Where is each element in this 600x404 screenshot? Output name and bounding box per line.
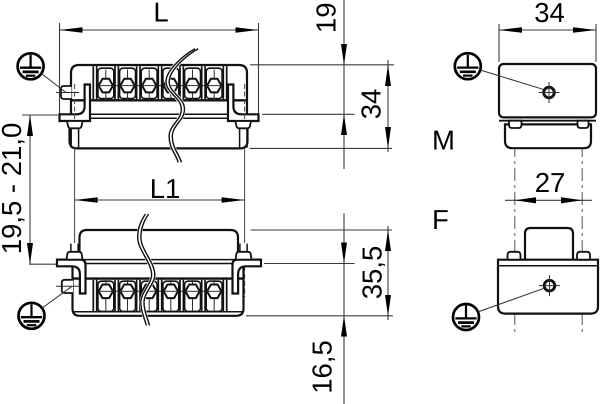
dimension L1 arrow right [222, 197, 245, 203]
M view centerline left [514, 72, 516, 333]
svg-text:19: 19 [310, 3, 341, 34]
male terminal cell 6 [206, 68, 222, 100]
female terminal divider 4 [158, 280, 161, 312]
female ground leader [42, 286, 72, 308]
female terminal row centerline [96, 290, 224, 292]
dimension 34 right line [499, 29, 596, 31]
male terminal cell 3 [141, 68, 157, 100]
female terminal divider 2 [115, 280, 118, 312]
svg-text:M: M [432, 125, 455, 156]
dimension 19,5-21,0 arrow up [27, 115, 33, 136]
female terminal divider 3 [137, 280, 140, 312]
dimension L1 arrow left [75, 197, 98, 203]
F view foot right [577, 252, 590, 260]
chain arrow up at female bottom [341, 316, 347, 337]
male terminal divider 1 [93, 66, 96, 99]
female flange line [57, 259, 261, 261]
M view ledge [499, 120, 596, 122]
dimension 27 line [505, 199, 592, 201]
female terminal divider 1 [93, 280, 96, 312]
M ground symbol [455, 53, 481, 79]
dimension 35,5 line [387, 226, 389, 320]
dimension 34 line [387, 60, 389, 152]
svg-text:F: F [432, 204, 449, 235]
M view foot right [578, 121, 589, 128]
extension line female body bottom [246, 315, 393, 317]
female terminal cell 6 [206, 280, 222, 311]
dimension 34 right extension left [498, 24, 500, 62]
dimension L line [60, 29, 259, 31]
male terminal divider 3 [137, 66, 140, 99]
female terminal cell 4 [163, 280, 179, 311]
male terminal cell 2 [120, 68, 136, 100]
dimension L arrow left [60, 27, 83, 33]
extension line male flange [262, 113, 355, 115]
male PE bump centerline [56, 92, 79, 94]
female mounting bracket left [57, 260, 86, 294]
F view center screw [539, 275, 560, 296]
svg-text:35,5: 35,5 [357, 246, 388, 300]
male terminal cell 4 [163, 68, 179, 100]
female PE bump centerline [56, 285, 79, 287]
dimension L1 line [75, 199, 245, 201]
svg-text:L: L [153, 0, 168, 28]
svg-text:34: 34 [356, 89, 387, 120]
dimension 34 right extension right [595, 24, 597, 62]
male terminal row centerline [96, 85, 224, 87]
female PE contact bump [62, 280, 73, 293]
dimension 35,5 arrow up [385, 230, 391, 251]
male bracket screw left [67, 121, 83, 148]
female terminal cell 3 [141, 280, 157, 311]
male terminal divider 6 [202, 66, 205, 99]
dimension L extension line left [59, 23, 61, 114]
extension line female flange right [264, 263, 355, 265]
svg-text:19,5 - 21,0: 19,5 - 21,0 [0, 123, 27, 254]
dimension 34 arrow down [385, 127, 391, 148]
M view centerline right [581, 72, 583, 333]
female terminal row bottom line [73, 311, 243, 313]
dimension 19 arrow down [341, 44, 347, 65]
female terminal divider 6 [202, 280, 205, 312]
female ground symbol [19, 303, 45, 329]
male terminal row bottom line [71, 99, 247, 101]
male skirt top line [70, 117, 248, 119]
M view center screw [539, 82, 560, 103]
male terminal divider 7 [223, 66, 226, 99]
female terminal divider 7 [223, 280, 226, 312]
svg-text:27: 27 [535, 167, 566, 198]
female terminal divider 5 [180, 280, 183, 312]
extension line female flange left [29, 263, 59, 265]
male ground leader [41, 74, 66, 93]
extension line male top [250, 64, 394, 66]
dimension 19,5-21,0 arrow down [27, 243, 33, 264]
dimension 19 arrow up [341, 114, 347, 135]
F view foot left [508, 252, 521, 260]
female terminal cell 2 [120, 280, 136, 311]
dimension L1 extension line left [74, 84, 76, 297]
female terminal row top line [73, 277, 244, 279]
female insert hood [80, 230, 239, 264]
male PE contact bump [61, 86, 72, 99]
female terminal cell 1 [98, 280, 114, 311]
dimension 27 arrow right [561, 197, 582, 203]
female bracket screw left [67, 244, 83, 260]
male terminal divider 2 [115, 66, 118, 99]
svg-text:L1: L1 [150, 173, 181, 204]
female mounting bracket right [233, 260, 262, 294]
extension line female hood top [251, 229, 393, 231]
dimension 35,5 arrow down [385, 295, 391, 316]
F ground leader [478, 288, 544, 312]
female break line [138, 214, 155, 326]
dimension L arrow right [236, 27, 259, 33]
female insert body [73, 264, 244, 316]
dimension L1 extension line right [244, 84, 246, 297]
M view foot left [509, 121, 522, 128]
dimension 27 arrow left [515, 197, 536, 203]
dimension 19 line [343, 0, 345, 169]
male insert body [71, 65, 247, 114]
dimension L extension line right [258, 23, 260, 114]
svg-text:34: 34 [534, 0, 565, 28]
extension line flange left [22, 114, 58, 116]
dimension 34 arrow up [385, 65, 391, 86]
male insert skirt [70, 118, 248, 148]
F view ledge line [498, 265, 598, 267]
male terminal cell 5 [185, 68, 201, 100]
female bracket screw right [236, 244, 252, 260]
extension line male bottom [250, 147, 393, 149]
male flange line [60, 113, 259, 115]
dimension 34 right arrow left [499, 27, 522, 33]
male mounting bracket right [228, 85, 259, 122]
dimension chain line lower [343, 213, 345, 404]
male ground symbol [18, 53, 44, 79]
male bracket screw right [235, 121, 251, 148]
dimension 19,5-21,0 line [29, 115, 31, 264]
M view skirt [505, 124, 591, 148]
chain arrow down at female flange [341, 243, 347, 264]
male terminal divider 5 [180, 66, 183, 99]
F ground symbol [453, 304, 479, 330]
svg-text:16,5: 16,5 [307, 340, 338, 394]
M view body [499, 64, 596, 117]
M ground leader [480, 70, 543, 89]
F view body [498, 260, 598, 314]
male terminal divider 4 [158, 66, 161, 99]
male terminal cell 1 [98, 68, 114, 100]
F view nose [525, 228, 573, 260]
dimension 34 right arrow right [573, 27, 596, 33]
female terminal cell 5 [185, 280, 201, 311]
female body top line [73, 263, 244, 265]
male break line [166, 49, 198, 163]
male mounting bracket left [60, 85, 91, 122]
